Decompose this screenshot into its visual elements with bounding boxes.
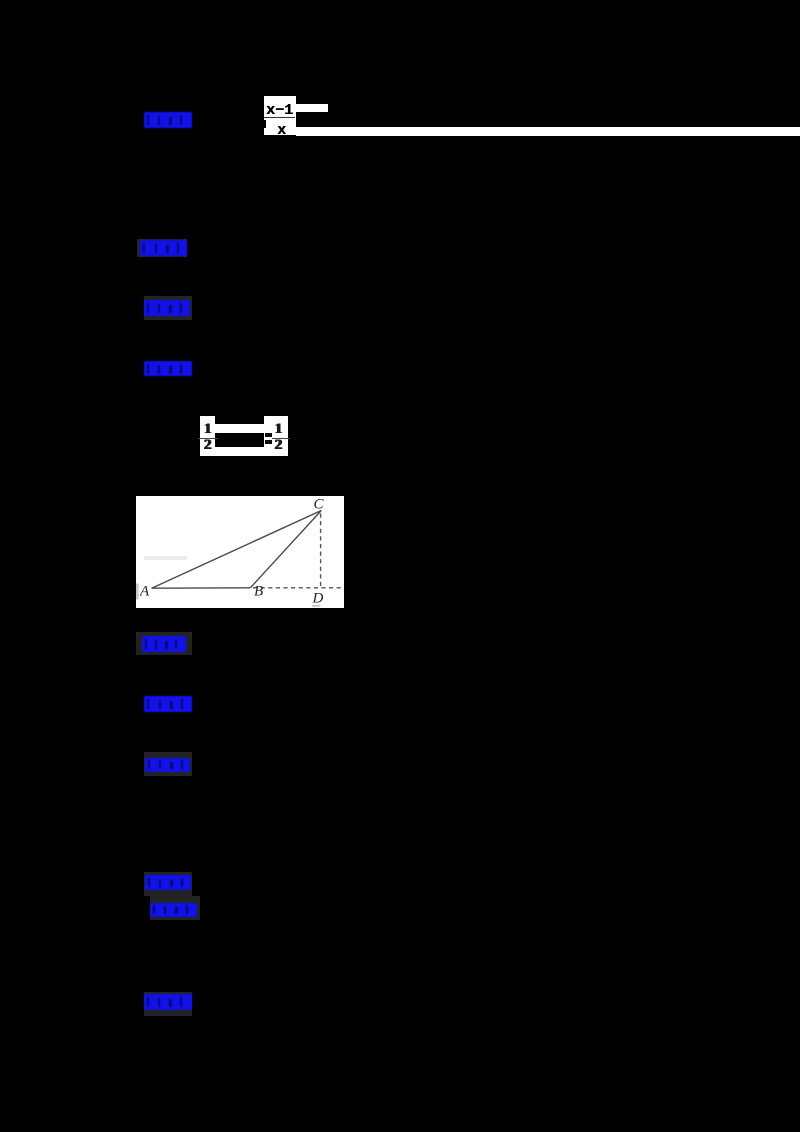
side BC — [250, 510, 321, 587]
left fraction digits — [200, 421, 215, 438]
geometry figure white panel — [136, 496, 344, 609]
svg-text:A: A — [139, 583, 150, 599]
faint smudge — [144, 556, 187, 560]
denominator x — [266, 122, 297, 136]
equals sign black — [265, 433, 272, 437]
white bar right of numerator — [296, 104, 328, 112]
black notch at fraction box left edge — [264, 120, 267, 128]
label L5 blue tag with gray backing — [136, 632, 193, 655]
bottom white strip — [200, 447, 289, 456]
right fraction digits — [271, 421, 286, 438]
label L8 blue tag with gray backing — [144, 872, 192, 896]
label L4 blue tag — [144, 361, 192, 377]
dashed BD extended — [253, 586, 343, 588]
side AB — [152, 586, 251, 588]
triangle ABC with dashed BD, CD : svg — [136, 496, 344, 609]
left edge gray strip — [136, 583, 139, 599]
right fraction white box — [264, 416, 287, 456]
side AC — [152, 510, 322, 588]
svg-text:B: B — [254, 583, 263, 599]
label L10 blue tag with gray backing — [144, 992, 192, 1016]
svg-text:C: C — [314, 496, 325, 512]
label L7 blue tag with gray backing — [144, 752, 192, 776]
label L6 blue tag — [144, 696, 193, 712]
left fraction white box — [200, 416, 215, 457]
numerator x-1 — [264, 102, 295, 118]
label L2 blue tag — [137, 239, 188, 257]
long white selection bar to page right edge — [296, 127, 800, 136]
svg-text:D: D — [312, 590, 324, 606]
fraction bar — [264, 117, 295, 118]
equation image: fraction (x-1)/x white box — [264, 96, 297, 135]
top middle white bar — [215, 424, 264, 433]
dashed CD — [320, 513, 322, 587]
watermark remnant — [312, 605, 320, 607]
label L9 blue tag with gray backing, indented — [150, 896, 200, 920]
label L1 blue tag 【解答】 highlighted — [144, 112, 192, 128]
label L3 blue tag with gray backing — [144, 296, 193, 320]
